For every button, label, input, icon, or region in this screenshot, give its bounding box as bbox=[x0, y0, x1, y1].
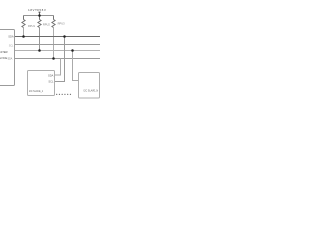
svg-text:SCL: SCL bbox=[9, 45, 14, 48]
resistor RPU2 bbox=[38, 16, 41, 51]
node dot RPU2 to line3 bbox=[38, 49, 41, 52]
wire line3 drop to slave N bbox=[73, 51, 79, 81]
wire power rail bbox=[24, 15, 54, 17]
node dot SCL tap bbox=[63, 35, 66, 38]
wire SCL drop to slave 1 bbox=[55, 37, 65, 82]
svg-text:SDA: SDA bbox=[8, 34, 14, 38]
svg-text:RPU1: RPU1 bbox=[28, 24, 35, 28]
ellipsis between slaves bbox=[56, 94, 71, 95]
wire SDA drop to slave 1 bbox=[55, 59, 61, 76]
svg-text:I2C SLAVE_N: I2C SLAVE_N bbox=[84, 89, 99, 92]
svg-text:RPU3: RPU3 bbox=[58, 22, 65, 26]
svg-text:MASTER: MASTER bbox=[0, 50, 8, 54]
svg-text:I2C SLAVE_1: I2C SLAVE_1 bbox=[29, 90, 44, 93]
IC slave 1 box bbox=[28, 71, 55, 96]
svg-text:SDA: SDA bbox=[8, 57, 13, 60]
node dot RPU3 to SDA bbox=[52, 57, 55, 60]
svg-text:1.8 V TO 5.5 V: 1.8 V TO 5.5 V bbox=[28, 8, 46, 12]
resistor RPU3 bbox=[52, 16, 55, 59]
IC slave N box bbox=[79, 73, 100, 99]
node dot line3 tap bbox=[71, 49, 74, 52]
node supply junction dot bbox=[38, 14, 41, 17]
svg-text:DEVICE: DEVICE bbox=[0, 56, 7, 60]
wire bus line 2 bbox=[15, 44, 101, 46]
IC master box bbox=[0, 30, 15, 86]
resistor RPU1 bbox=[22, 16, 25, 37]
wire bus line 3 bbox=[15, 50, 101, 52]
svg-text:RPU2: RPU2 bbox=[43, 23, 50, 27]
wire bus line SCL bbox=[15, 36, 101, 38]
svg-text:SCL: SCL bbox=[48, 80, 54, 84]
wire bus line SDA bbox=[15, 58, 101, 60]
node dot RPU1 to SCL bbox=[22, 35, 25, 38]
svg-text:SDA: SDA bbox=[48, 73, 54, 77]
power tap symbol bbox=[38, 12, 41, 16]
